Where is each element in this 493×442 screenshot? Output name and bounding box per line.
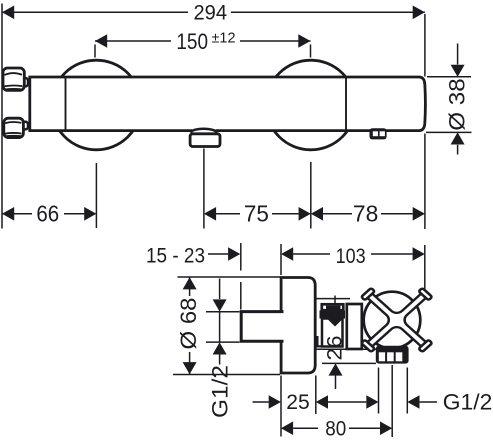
svg-text:Ø 68: Ø 68	[176, 298, 201, 350]
dim 103	[281, 244, 425, 437]
svg-text:150: 150	[176, 29, 208, 54]
svg-text:80: 80	[325, 417, 346, 440]
housing bottom line	[316, 348, 377, 350]
stem top box	[322, 304, 344, 310]
svg-text:Ø 38: Ø 38	[444, 78, 469, 131]
dim 25	[253, 376, 367, 415]
s-connector nut upper	[3, 68, 24, 90]
dim 26	[327, 319, 343, 327]
dim diameter 38	[425, 14, 472, 155]
dim 15 - 23 leader	[208, 243, 241, 310]
joint line left	[65, 77, 67, 131]
svg-text:G1/2: G1/2	[208, 365, 233, 418]
dim 78	[323, 134, 425, 230]
dim 80	[293, 365, 392, 437]
svg-text:75: 75	[244, 201, 269, 227]
svg-text:78: 78	[353, 201, 378, 227]
stem step	[317, 336, 322, 346]
dim G1/2 right	[379, 368, 438, 414]
stem dark band	[320, 311, 346, 319]
supply stub	[241, 312, 283, 342]
knurled nut	[376, 346, 409, 364]
svg-text:25: 25	[286, 391, 310, 414]
outlet gap mask	[192, 128, 216, 133]
svg-text:294: 294	[194, 2, 228, 25]
outlet body	[190, 134, 220, 147]
svg-text:103: 103	[336, 245, 366, 268]
cross handle	[336, 265, 458, 375]
svg-text:15 - 23: 15 - 23	[146, 244, 205, 267]
right knob circle	[266, 60, 356, 150]
dim G1/2 left	[206, 279, 240, 365]
joint line right	[345, 77, 347, 131]
svg-text:±12: ±12	[212, 30, 236, 46]
dim 294	[2, 11, 425, 13]
s-connector nut upper tab	[22, 78, 29, 86]
s-connector nut lower tab	[22, 122, 29, 130]
handle circle	[364, 292, 421, 349]
stem lower box	[322, 319, 343, 347]
left knob circle	[52, 60, 142, 150]
escutcheon disc	[281, 278, 315, 374]
bar body	[30, 77, 426, 131]
dim diameter 68	[173, 277, 280, 375]
svg-text:G1/2: G1/2	[443, 390, 493, 415]
dim 66	[2, 163, 96, 228]
svg-text:26: 26	[324, 336, 347, 361]
clamp detail	[370, 128, 387, 139]
sleeve	[347, 304, 362, 349]
dim 75	[204, 149, 311, 229]
housing top line	[316, 298, 351, 300]
wall extension line	[1, 4, 3, 229]
outlet dome	[191, 129, 217, 133]
s-connector nut lower	[4, 118, 24, 137]
26 dim upper shaft	[334, 296, 336, 306]
dim 150 +-12	[95, 41, 311, 58]
svg-text:66: 66	[36, 201, 59, 227]
